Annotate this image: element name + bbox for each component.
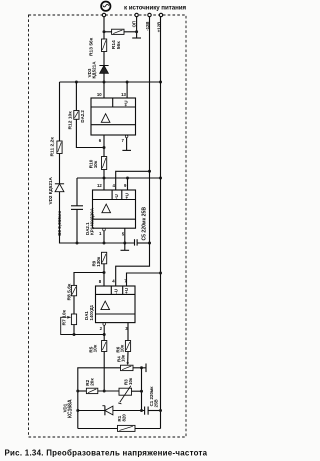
wire: R9 node to R8	[74, 273, 104, 286]
-12В rail	[116, 17, 150, 286]
wire: C5 to -12В rail	[137, 242, 149, 244]
node R10 bottom / pin 12	[103, 177, 106, 180]
svg-text:12: 12	[97, 183, 102, 188]
svg-text:2: 2	[100, 326, 103, 331]
svg-text:R11 2,2к: R11 2,2к	[50, 137, 56, 157]
svg-text:140УД1: 140УД1	[89, 304, 94, 320]
zener diode VD1	[102, 406, 113, 416]
wire: C3 bottom lead	[76, 209, 78, 243]
pin 5 of DA2.1	[124, 228, 126, 243]
node R2 left	[76, 390, 79, 393]
svg-text:R13 56к: R13 56к	[89, 37, 95, 56]
wire: VD1 wire	[78, 410, 145, 412]
wire: R4 left lead to left branch	[78, 368, 121, 429]
svg-text:10к: 10к	[93, 160, 98, 168]
capacitor C3	[71, 206, 83, 210]
resistor R12	[74, 111, 79, 120]
svg-text:-U: -U	[114, 194, 119, 199]
resistor R2	[86, 388, 97, 393]
node ОП junction	[135, 30, 138, 33]
node +12В rail top	[159, 81, 162, 84]
node pin6/R10/R12	[103, 146, 106, 149]
node pin13	[126, 81, 129, 84]
node +12В rail y410	[159, 409, 162, 412]
node R12 top	[75, 81, 78, 84]
node pin 9	[126, 177, 129, 180]
node R7/wiper	[73, 333, 76, 336]
svg-text:10к: 10к	[120, 344, 125, 352]
pin 10 of DA2.2	[103, 82, 105, 98]
svg-text:КД521А: КД521А	[92, 61, 97, 79]
svg-text:R7 10к: R7 10к	[62, 309, 68, 325]
svg-text:+U: +U	[124, 193, 129, 199]
diode VD3	[99, 66, 108, 74]
node VD1/C1 wire at R4 column	[140, 409, 143, 412]
wire: node A to R14	[104, 31, 112, 33]
wire: +U horizontal bus y=82	[60, 81, 161, 83]
resistor R8	[71, 285, 76, 295]
svg-text:КР140УД20А: КР140УД20А	[90, 207, 95, 235]
pin 3 of DA1	[127, 323, 129, 341]
node VD3/pin10	[103, 81, 106, 84]
svg-text:С3 0,015мк: С3 0,015мк	[57, 211, 62, 236]
svg-text:6: 6	[99, 138, 102, 143]
ground bar (common) under ОП	[132, 37, 141, 39]
wire: R12 bottom to pin6 node	[76, 119, 104, 147]
svg-text:56к: 56к	[116, 41, 122, 49]
wire: R5 bottom to R2/R3 node	[103, 352, 105, 392]
svg-text:Рис. 1.34. Преобразователь нап: Рис. 1.34. Преобразователь напряжение-ча…	[5, 449, 208, 458]
wire: R4 node down to VD1/C1 wire	[141, 368, 143, 411]
pin 7 of DA2.2 (inverted)	[125, 135, 128, 138]
wire: R2 left lead	[78, 390, 87, 392]
svg-text:10: 10	[97, 92, 102, 97]
pin 2 of DA1 (inverted)	[103, 323, 106, 326]
svg-text:ОП: ОП	[131, 21, 136, 27]
diode VD2	[55, 184, 64, 192]
node -12В rail y171	[148, 170, 151, 173]
resistor R14	[112, 29, 124, 34]
pin 9 wire of DA2.1	[127, 178, 129, 190]
wire: R4 right lead to common bar	[133, 367, 146, 369]
ground stub under wire	[124, 243, 126, 250]
wire: C3 top branch	[76, 178, 78, 206]
pin 13 of DA2.2	[126, 82, 128, 98]
svg-text:R12 10к: R12 10к	[68, 111, 74, 130]
wire: ОП rail	[136, 17, 138, 38]
svg-text:25В: 25В	[153, 399, 158, 407]
pin 1 of DA2.1 (inverted output)	[103, 228, 106, 231]
ground bar	[121, 249, 130, 251]
wire: R14 to ОП rail	[124, 31, 137, 33]
svg-text:7: 7	[122, 138, 125, 143]
svg-text:10к: 10к	[128, 377, 133, 385]
wire: C1 right lead to +12В rail	[148, 410, 160, 412]
svg-text:VD2 КД521А: VD2 КД521А	[48, 177, 53, 205]
resistor R5	[102, 341, 107, 352]
svg-text:-U: -U	[114, 289, 119, 294]
node pin2/R5	[103, 333, 106, 336]
wire: R3 right lead	[132, 390, 142, 392]
wire: pin6 node to R10	[103, 148, 105, 157]
node R2/R3/R5	[103, 390, 106, 393]
ground bar under pin 7	[122, 149, 131, 151]
svg-text:4: 4	[112, 279, 115, 284]
node R3 right	[140, 390, 143, 393]
op-amp DA1	[96, 286, 136, 323]
node +12В rail y273	[159, 272, 162, 275]
wire: output terminal to R13 node	[103, 17, 105, 39]
svg-text:к источнику питания: к источнику питания	[124, 4, 186, 11]
svg-text:DA2.2: DA2.2	[80, 110, 85, 123]
svg-text:8: 8	[99, 279, 102, 284]
wire: R11 to VD2	[59, 154, 61, 184]
node +12В rail y178	[159, 177, 162, 180]
svg-text:130к: 130к	[96, 256, 101, 267]
node R9 bottom	[103, 271, 106, 274]
trimmer R3	[118, 386, 131, 404]
capacitor C5	[135, 239, 138, 245]
wire: R9 bottom to DA1 pin 8	[103, 264, 105, 286]
common bar (vertical)	[145, 364, 147, 373]
svg-text:КС168А: КС168А	[67, 399, 73, 418]
+12В rail	[160, 17, 162, 429]
svg-text:13: 13	[121, 92, 126, 97]
wire: DA1 pin7 to +12В rail	[127, 273, 161, 286]
resistor R9	[102, 252, 107, 263]
resistor R11	[57, 141, 62, 154]
resistor R13	[102, 39, 107, 52]
wire: R7 node to pin2 node	[74, 334, 104, 336]
resistor R6	[125, 341, 130, 352]
svg-text:10к: 10к	[93, 344, 98, 352]
svg-text:+U: +U	[124, 288, 129, 294]
wire: R13 to VD3	[103, 52, 105, 66]
svg-text:+U: +U	[124, 101, 129, 107]
op-amp DA2.2	[91, 98, 136, 135]
node VD1 left	[76, 409, 79, 412]
potentiometer R7	[61, 314, 77, 335]
node A (R13/R14 junction)	[103, 30, 106, 33]
node pin5/ground stub	[123, 242, 126, 245]
dashed enclosure box	[29, 15, 187, 437]
wire: R2 right to R3 left	[98, 390, 119, 392]
capacitor C1	[145, 407, 149, 415]
trimmer R4	[121, 365, 134, 370]
wire: R12 top lead	[75, 82, 77, 111]
pin 6 of DA2.2	[103, 135, 105, 148]
svg-text:10к: 10к	[121, 354, 126, 362]
svg-text:С5 220мк 25В: С5 220мк 25В	[142, 207, 148, 241]
terminal -12В	[148, 13, 151, 16]
node pin1/R9	[103, 242, 106, 245]
wire: R10 bottom to y178 bus	[103, 170, 105, 191]
svg-text:20к: 20к	[89, 378, 94, 386]
resistor R10	[102, 157, 107, 170]
node -12В rail y243	[148, 242, 151, 245]
svg-text:820: 820	[122, 414, 127, 422]
wire: VD2 down to bottom wire of integrator	[60, 192, 135, 243]
wire: R8 to R7	[73, 296, 75, 314]
terminal X1 (output)	[102, 13, 105, 16]
resistor R1	[118, 425, 136, 431]
output connector symbol	[101, 2, 110, 11]
wire: bus y=178 from C3 branch to +12В rail	[77, 177, 161, 179]
svg-text:4: 4	[113, 183, 116, 188]
wire: R6 bottom to R4 wiper arrow	[127, 352, 129, 363]
wire: bottom return	[78, 428, 161, 430]
terminal +12В	[159, 13, 162, 16]
svg-text:9: 9	[124, 183, 127, 188]
wire: R7 bottom	[73, 325, 75, 335]
node C3 bottom	[76, 242, 79, 245]
wire: left branch down to R11	[59, 82, 61, 141]
op-amp DA2.1	[93, 190, 136, 228]
svg-text:1: 1	[99, 231, 102, 236]
wire: -12В rail to pin4 wire of DA2.1	[116, 171, 150, 190]
terminal ОП	[135, 13, 138, 16]
wire: VD3 to +U bus	[103, 73, 105, 82]
node R4 right	[140, 366, 143, 369]
svg-text:R8 5,6к: R8 5,6к	[67, 283, 73, 300]
